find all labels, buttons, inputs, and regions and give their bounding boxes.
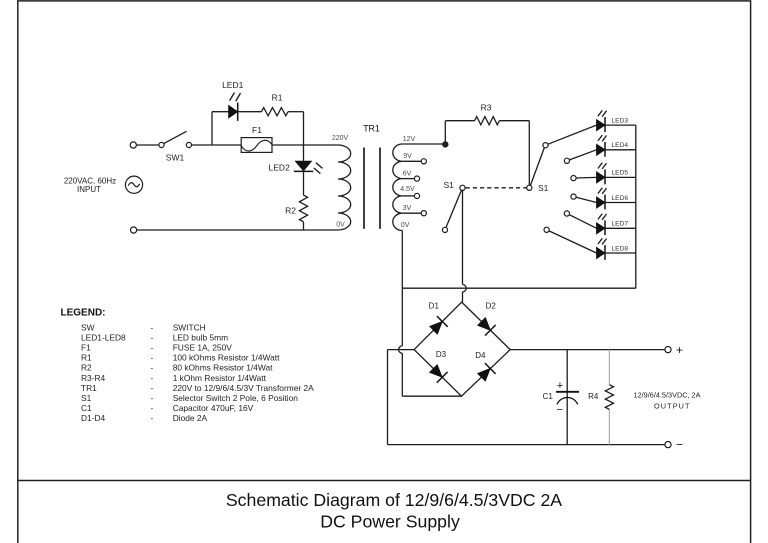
svg-text:-: - — [151, 353, 154, 363]
svg-text:LED1-LED8: LED1-LED8 — [81, 333, 126, 343]
diode D3 — [430, 365, 443, 378]
LED LED5 — [597, 172, 606, 183]
svg-text:C1: C1 — [81, 403, 92, 413]
svg-text:INPUT: INPUT — [77, 185, 101, 194]
input terminal bottom — [131, 227, 137, 233]
wire hop over minus rail — [399, 346, 403, 353]
svg-text:−: − — [676, 438, 683, 452]
switch S1 right pivot — [527, 185, 532, 190]
svg-text:LED8: LED8 — [612, 245, 629, 252]
transformer TR1 secondary winding — [393, 144, 403, 231]
title block divider — [18, 480, 751, 482]
svg-text:-: - — [151, 393, 154, 403]
svg-text:TR1: TR1 — [81, 383, 97, 393]
wire 0V horizontal rail — [402, 287, 636, 289]
svg-text:SW: SW — [81, 323, 95, 333]
wire LED1 to R1 — [238, 111, 262, 113]
svg-text:LED1: LED1 — [222, 80, 244, 90]
wire LED4 to bus — [605, 149, 636, 151]
wire 12V tap — [402, 143, 442, 145]
LED LED8 — [597, 247, 606, 258]
svg-text:C1: C1 — [543, 392, 554, 401]
resistor R4 — [605, 385, 613, 410]
svg-text:S1: S1 — [443, 180, 454, 190]
LED LED2 — [295, 161, 311, 171]
wire LED6 to bus — [605, 202, 636, 204]
wire LED3 to bus — [605, 124, 636, 126]
switch S1 left open contact — [442, 227, 447, 232]
tap 3V — [402, 212, 421, 214]
svg-text:-: - — [151, 323, 154, 333]
wire LED2 to R2 — [303, 171, 305, 195]
svg-text:LED6: LED6 — [612, 195, 629, 202]
LED LED6 — [597, 197, 606, 208]
svg-text:R1: R1 — [81, 353, 92, 363]
wire LED8 to bus — [605, 252, 636, 254]
LED LED4 — [597, 144, 606, 155]
AC source symbol — [125, 176, 142, 193]
wire to LED1 — [212, 111, 229, 113]
svg-text:100 kOhms Resistor 1/4Watt: 100 kOhms Resistor 1/4Watt — [173, 353, 280, 363]
wire 0V down continue — [401, 288, 403, 346]
svg-text:FUSE 1A, 250V: FUSE 1A, 250V — [173, 343, 233, 353]
wire bottom rail — [137, 229, 338, 231]
S1 contact for LED7 — [564, 211, 569, 216]
svg-text:220V: 220V — [332, 135, 349, 142]
svg-text:Schematic Diagram of 12/9/6/4.: Schematic Diagram of 12/9/6/4.5/3VDC 2A — [226, 490, 562, 510]
svg-text:LED7: LED7 — [612, 221, 629, 228]
LED LED1 — [229, 105, 238, 118]
S1 contact for LED6 — [571, 194, 576, 199]
svg-text:6V: 6V — [403, 170, 412, 177]
wire LED7 to bus — [605, 227, 636, 229]
wire C1 vertical — [566, 350, 568, 445]
svg-text:80 kOhms Resistor 1/4Wat: 80 kOhms Resistor 1/4Wat — [173, 363, 273, 373]
svg-text:DC Power Supply: DC Power Supply — [320, 512, 460, 532]
svg-text:D4: D4 — [475, 351, 486, 360]
transformer TR1 primary winding — [338, 145, 351, 230]
tap 6V — [402, 178, 414, 180]
svg-text:D1: D1 — [429, 302, 440, 311]
svg-text:F1: F1 — [252, 125, 262, 135]
wire hop over 0V rail — [463, 285, 467, 292]
svg-text:R2: R2 — [81, 363, 92, 373]
wire F1 to TR1 — [272, 144, 338, 146]
wire contact to LED4 — [569, 150, 596, 160]
wire hop to bridge top — [462, 292, 464, 302]
diode D4 — [478, 369, 491, 382]
svg-text:F1: F1 — [81, 343, 91, 353]
svg-text:D3: D3 — [436, 350, 447, 359]
svg-text:OUTPUT: OUTPUT — [654, 402, 691, 411]
wire R2 to bottom rail — [303, 222, 305, 230]
svg-text:Capacitor 470uF, 16V: Capacitor 470uF, 16V — [173, 403, 254, 413]
svg-text:-: - — [151, 333, 154, 343]
svg-text:LEGEND:: LEGEND: — [61, 308, 106, 319]
svg-text:SWITCH: SWITCH — [173, 323, 206, 333]
switch S1 left pivot — [460, 185, 465, 190]
svg-text:220V to 12/9/6/4.5/3V Transfor: 220V to 12/9/6/4.5/3V Transformer 2A — [173, 383, 314, 393]
switch S1 right arm — [530, 148, 544, 186]
S1 contact for LED8 — [544, 227, 549, 232]
svg-text:-: - — [151, 383, 154, 393]
wire 0V tap down — [401, 231, 403, 289]
resistor R3 — [475, 117, 500, 125]
LED LED7 — [597, 223, 606, 234]
wire contact to LED6 — [576, 197, 596, 202]
wire LED1 branch vertical — [211, 112, 213, 145]
wire contact to LED5 — [576, 176, 596, 179]
S1 contact for LED4 — [564, 158, 569, 163]
switch SW1 — [159, 142, 164, 147]
wire contact to LED3 — [548, 125, 597, 144]
svg-text:S1: S1 — [81, 393, 92, 403]
svg-text:−: − — [556, 404, 562, 416]
wire SW1 to F1 — [192, 144, 242, 146]
svg-text:-: - — [151, 363, 154, 373]
svg-text:4.5V: 4.5V — [400, 186, 415, 193]
svg-text:LED5: LED5 — [612, 170, 629, 177]
svg-text:-: - — [151, 413, 154, 423]
svg-text:-: - — [151, 403, 154, 413]
transformer core — [363, 148, 365, 229]
output terminal plus — [665, 347, 671, 353]
node 12V junction — [443, 142, 448, 147]
svg-text:R1: R1 — [272, 92, 283, 102]
svg-text:12/9/6/4.5/3VDC, 2A: 12/9/6/4.5/3VDC, 2A — [634, 390, 701, 399]
switch S1 left arm — [446, 190, 461, 227]
wire contact to LED7 — [569, 215, 596, 229]
svg-text:D2: D2 — [486, 302, 497, 311]
svg-text:Selector Switch 2 Pole, 6 Posi: Selector Switch 2 Pole, 6 Position — [173, 393, 299, 403]
svg-text:S1: S1 — [538, 183, 549, 193]
input terminal top — [130, 142, 136, 148]
svg-text:+: + — [676, 343, 683, 357]
svg-text:LED4: LED4 — [612, 142, 629, 149]
wire bridge left to minus rail — [388, 349, 415, 351]
wire R3 to S1 right — [499, 120, 529, 122]
svg-text:R3: R3 — [481, 103, 492, 113]
svg-text:+: + — [557, 380, 563, 392]
svg-text:0V: 0V — [336, 222, 345, 229]
fuse F1 — [241, 138, 272, 153]
resistor R2 — [299, 195, 307, 222]
svg-text:1 kOhm Resistor 1/4Watt: 1 kOhm Resistor 1/4Watt — [173, 373, 267, 383]
wire LED5 to bus — [605, 176, 636, 178]
svg-text:R4: R4 — [588, 392, 599, 401]
LED LED3 — [597, 120, 606, 131]
resistor R1 — [262, 108, 289, 116]
svg-text:R2: R2 — [285, 206, 296, 216]
svg-text:3V: 3V — [403, 205, 412, 212]
wire 0V to bridge bottom — [401, 353, 403, 396]
svg-text:Diode 2A: Diode 2A — [173, 413, 208, 423]
svg-text:D1-D4: D1-D4 — [81, 413, 106, 423]
svg-text:LED2: LED2 — [269, 162, 291, 172]
svg-text:-: - — [151, 343, 154, 353]
wire to R3 — [445, 120, 474, 122]
svg-text:SW1: SW1 — [166, 152, 185, 162]
svg-text:LED3: LED3 — [612, 117, 629, 124]
wire input-top to SW1 — [136, 144, 159, 146]
S1 contact for LED3 — [543, 143, 548, 148]
diode D2 — [478, 318, 491, 331]
tap 4.5V — [402, 195, 414, 197]
output terminal minus — [665, 442, 671, 448]
dashed gang link S1 — [466, 187, 527, 189]
svg-text:12V: 12V — [403, 136, 416, 143]
wire LED cathode bus — [635, 125, 637, 288]
svg-text:-: - — [151, 373, 154, 383]
svg-text:0V: 0V — [401, 222, 410, 229]
svg-text:LED bulb 5mm: LED bulb 5mm — [173, 333, 228, 343]
diode D1 — [430, 322, 443, 335]
wire R1 to corner — [288, 111, 304, 113]
svg-text:TR1: TR1 — [363, 123, 380, 133]
wire R4 gray leads — [608, 350, 610, 385]
S1 contact for LED5 — [571, 176, 576, 181]
wire minus rail bottom — [388, 444, 665, 446]
wire junction up — [444, 121, 446, 145]
wire R1 corner down — [303, 112, 305, 162]
wire contact to LED8 — [549, 231, 597, 253]
tap 9V — [402, 160, 421, 162]
wire plus rail — [510, 349, 665, 351]
capacitor C1 — [556, 391, 579, 393]
bridge diamond — [414, 302, 510, 396]
svg-text:R3-R4: R3-R4 — [81, 373, 106, 383]
wire S1 left common down — [462, 190, 464, 284]
svg-text:9V: 9V — [403, 153, 412, 160]
